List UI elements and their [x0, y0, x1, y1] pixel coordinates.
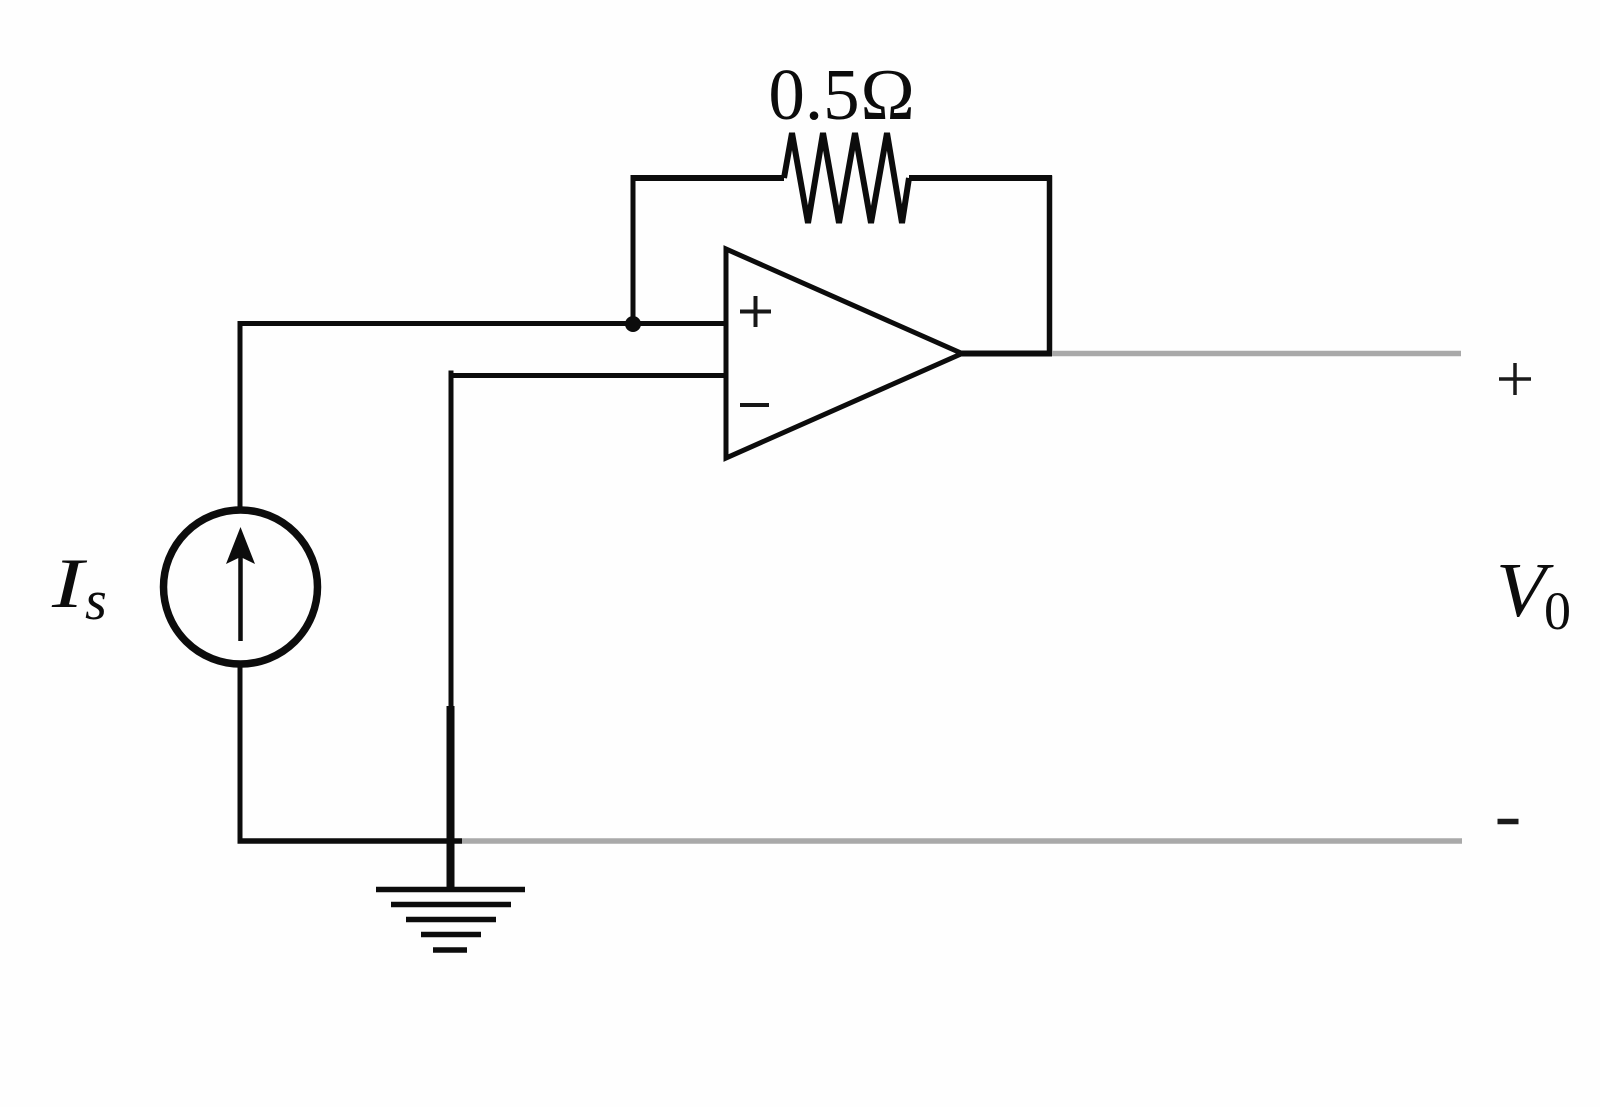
wire: feedback left vertical — [631, 176, 636, 325]
node: junction dot at + input — [625, 316, 641, 332]
wire: op-amp output — [958, 351, 1052, 357]
svg-text:0.5Ω: 0.5Ω — [768, 54, 915, 135]
wire: output + rail (gray) — [1052, 351, 1461, 357]
label: output + terminal — [1499, 363, 1531, 395]
label: output - terminal — [1498, 819, 1519, 825]
wire: source bottom lead — [238, 663, 243, 844]
label: Is — [51, 545, 88, 623]
svg-text:I: I — [51, 545, 88, 623]
op-amp - input marker — [740, 403, 769, 407]
wire: ground vertical (thick lower part) — [447, 706, 455, 889]
svg-text:s: s — [85, 570, 107, 632]
op-amp U1 triangle — [726, 249, 962, 458]
wire: feedback top right — [909, 175, 1052, 181]
wire: bottom rail (black) — [238, 838, 463, 844]
resistor R 0.5ohm zigzag — [784, 133, 909, 223]
wire: top node horizontal (source top to op-amp + input) — [238, 321, 727, 326]
wire: inverting input horizontal — [451, 371, 726, 713]
wire: feedback right vertical — [1047, 176, 1053, 357]
ground — [376, 890, 525, 951]
wire: left vertical source top lead — [238, 321, 243, 512]
current source Is — [164, 510, 318, 664]
svg-text:0: 0 — [1544, 581, 1571, 641]
op-amp + input marker — [740, 296, 771, 327]
wire: output - rail (gray) — [462, 838, 1462, 844]
wire: feedback top left — [631, 175, 785, 181]
label: V0 — [1496, 548, 1555, 633]
